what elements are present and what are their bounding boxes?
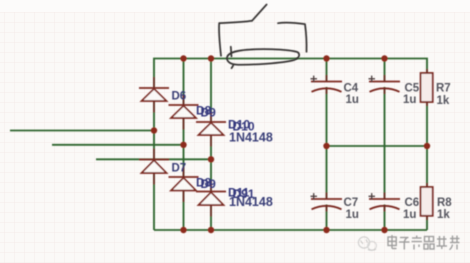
wire: rail 1 segment D7 to bottom bus [153, 173, 155, 230]
diode D8 [169, 105, 199, 118]
capacitor C4 [311, 82, 342, 92]
wire: C7 column middle [326, 146, 328, 199]
wire: rail 3 segment junction C to D11 [210, 159, 212, 191]
wire: R7 bottom lead [426, 102, 428, 146]
capacitor C6 [369, 199, 400, 209]
wire: rail 2 segment top bus to D8 [183, 59, 185, 106]
wire: rail 1 segment junction A to D7 [153, 131, 155, 160]
wire: middle bus [327, 145, 428, 147]
svg-text:R7: R7 [436, 82, 451, 94]
node: top bus / rail3 [208, 55, 214, 61]
diode & cap pin stubs (maroon) [154, 69, 427, 220]
node: top bus / C5 [381, 55, 387, 61]
watermark logo [358, 237, 376, 250]
svg-text:D9: D9 [201, 177, 217, 191]
wire: R8 top lead [426, 146, 428, 187]
svg-text:1k: 1k [437, 95, 450, 107]
diode D10 [196, 122, 226, 135]
diode D6 [139, 88, 169, 101]
label D9/D8 overlapped (bottom) [196, 175, 216, 191]
svg-text:D9: D9 [201, 105, 217, 119]
svg-text:C5: C5 [405, 83, 420, 95]
wire: R8 bottom lead [426, 216, 428, 230]
node: bottom bus / rail2 [180, 227, 186, 233]
wire: rail 3 segment D11 to bottom bus [210, 205, 212, 230]
wire: rail 3 segment top bus to D10 [210, 59, 212, 123]
resistor R7 [421, 73, 433, 102]
node: bottom bus / C6 [381, 227, 387, 233]
wire: C7 to bottom bus [326, 205, 328, 231]
diode D11 [196, 192, 226, 206]
wire: rail 1 segment D6 to junction A [153, 101, 155, 131]
label D10 overlapped [228, 118, 255, 134]
svg-text:R8: R8 [437, 197, 452, 209]
node: top bus / C4 [323, 55, 329, 61]
svg-text:1N4148: 1N4148 [229, 195, 273, 209]
diode D9 [169, 177, 199, 191]
node: bottom bus / C7 [323, 227, 329, 233]
hand-drawn annotation scribble [219, 5, 306, 69]
wire: C6 to bottom bus [384, 205, 386, 231]
wire: C4 to middle bus [326, 87, 328, 146]
svg-text:1k: 1k [437, 209, 450, 221]
watermark text (stylized CJK strokes) [388, 235, 460, 250]
svg-text:1u: 1u [346, 209, 359, 221]
label D8/D9 overlapped [196, 104, 216, 120]
svg-text:1N4148: 1N4148 [229, 131, 273, 145]
wire: rail 2 segment D9 to bottom bus [183, 191, 185, 231]
capacitor C5 [369, 82, 400, 92]
svg-text:1u: 1u [346, 94, 359, 106]
resistor R8 [421, 187, 433, 216]
wire: rail 3 segment D10 to junction C [210, 135, 212, 159]
wire: C4 column top [326, 59, 328, 82]
svg-text:C4: C4 [344, 83, 359, 95]
node C: phase3 / rail3 [208, 156, 214, 162]
node: top bus / rail2 [180, 55, 186, 61]
wire: top DC+ bus [154, 59, 427, 89]
node B: phase2 / rail2 [180, 142, 186, 148]
node: middle bus / C4-C7 [323, 143, 329, 149]
svg-text:C6: C6 [405, 197, 420, 209]
node: middle bus / R7-R8 [424, 143, 430, 149]
svg-text:C7: C7 [344, 197, 359, 209]
capacitor C7 [311, 199, 342, 209]
svg-text:D6: D6 [172, 91, 187, 103]
node: bottom bus / rail3 [208, 227, 214, 233]
wire: phase input 1 [10, 130, 154, 132]
wire: C5 to C6 crossing middle bus [384, 87, 386, 199]
diode D7 [139, 160, 169, 174]
wire: phase input 3 [96, 158, 211, 160]
node A: phase1 / rail1 [151, 127, 157, 133]
wire: bottom DC- bus [154, 229, 427, 231]
wire: phase input 2 [52, 144, 184, 146]
wire: rail 2 segment D8 to junction B [183, 118, 185, 145]
svg-text:1u: 1u [403, 209, 416, 221]
svg-text:D7: D7 [172, 163, 187, 175]
label D11 overlapped [228, 185, 255, 201]
svg-text:1u: 1u [403, 94, 416, 106]
wire: rail 2 segment junction B to D9 [183, 145, 185, 177]
wire: C5 column top [384, 59, 386, 82]
